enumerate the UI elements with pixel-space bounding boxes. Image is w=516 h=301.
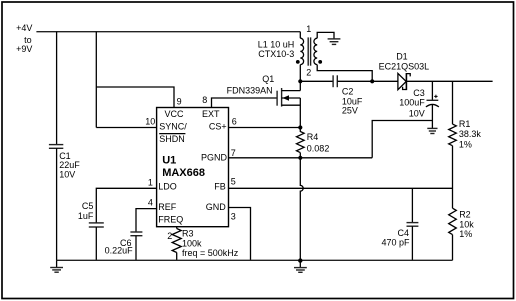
node junction R4 bottom (298, 156, 302, 160)
svg-text:3: 3 (231, 212, 236, 222)
svg-text:C2: C2 (342, 86, 354, 96)
ground (C3) (427, 128, 437, 133)
svg-text:R4: R4 (307, 132, 319, 142)
svg-text:SHDN: SHDN (159, 134, 185, 144)
resistor R1 (449, 119, 482, 149)
resistor R4 (297, 128, 330, 154)
svg-text:10k: 10k (459, 220, 474, 230)
svg-text:100uF: 100uF (399, 98, 425, 108)
svg-text:1%: 1% (459, 229, 472, 239)
ground (center below rail) (294, 260, 307, 272)
svg-text:0.082: 0.082 (307, 144, 330, 154)
svg-text:EXT: EXT (202, 109, 220, 119)
wire bottom ground rail (57, 259, 453, 261)
svg-text:5: 5 (231, 177, 236, 187)
svg-text:38.3k: 38.3k (459, 129, 482, 139)
node junction secondary/D1 (370, 79, 374, 83)
wire pin8 EXT to gate (212, 98, 278, 108)
svg-text:CTX10-3: CTX10-3 (258, 49, 294, 59)
svg-text:freq = 500kHz: freq = 500kHz (182, 248, 239, 258)
transformer L1 primary lead from rail (299, 32, 301, 39)
svg-text:FREQ: FREQ (158, 215, 183, 225)
resistor R3 (172, 227, 239, 261)
capacitor C3 (399, 81, 439, 128)
svg-text:9: 9 (177, 97, 182, 107)
capacitor C4 (381, 188, 418, 260)
svg-text:+4V: +4V (16, 23, 32, 33)
wire pin1 LDO (96, 188, 156, 223)
svg-text:25V: 25V (342, 106, 358, 116)
wire R2 bottom to rail (452, 235, 454, 261)
wire R1 to R2 (452, 146, 454, 209)
wire pin6 CS+ (229, 127, 301, 129)
svg-text:2: 2 (167, 231, 172, 241)
svg-text:6: 6 (232, 117, 237, 127)
wire pin7 PGND (229, 157, 373, 159)
svg-text:C5: C5 (82, 201, 94, 211)
wire pin4 REF (136, 209, 157, 232)
wire R4 ground drop with hop (300, 158, 303, 260)
svg-text:GND: GND (206, 202, 227, 212)
transistor Q1 FDN339AN (227, 74, 301, 127)
svg-text:1uF: 1uF (78, 211, 94, 221)
svg-text:10V: 10V (59, 170, 75, 180)
wire pin10 SYNC (96, 127, 156, 129)
ground (transformer secondary) (328, 39, 341, 45)
svg-text:FDN339AN: FDN339AN (227, 86, 273, 96)
svg-text:SYNC/: SYNC/ (159, 121, 187, 131)
wire C1 branch top (56, 32, 58, 145)
svg-text:+9V: +9V (16, 44, 32, 54)
svg-text:EC21QS03L: EC21QS03L (379, 61, 430, 71)
node VIN label +4V to +9V (16, 23, 32, 54)
svg-text:R3: R3 (182, 228, 194, 238)
svg-text:U1: U1 (162, 155, 176, 167)
svg-text:FB: FB (214, 182, 226, 192)
wire D1 to output (406, 80, 492, 82)
svg-text:R1: R1 (459, 119, 471, 129)
svg-text:VCC: VCC (164, 109, 184, 119)
svg-text:100k: 100k (182, 238, 202, 248)
svg-text:1: 1 (148, 178, 153, 188)
svg-text:D1: D1 (396, 51, 408, 61)
wire C1 bottom (56, 148, 58, 260)
svg-text:LDO: LDO (158, 182, 177, 192)
svg-text:10: 10 (145, 117, 155, 127)
node junction CS+/R4 top (298, 125, 302, 129)
wire top rail VIN (36, 31, 300, 33)
node junction rail center ground (298, 258, 302, 262)
svg-text:7: 7 (231, 148, 236, 158)
svg-text:Q1: Q1 (262, 74, 274, 84)
svg-text:4: 4 (148, 197, 153, 207)
wire pin3 GND drop (229, 208, 251, 261)
svg-text:10V: 10V (409, 108, 425, 118)
wire secondary top to ground (317, 32, 334, 38)
svg-text:470 pF: 470 pF (381, 238, 410, 248)
node junction Q1 drain / primary (298, 79, 302, 83)
phase dot secondary (318, 60, 322, 64)
svg-text:0.22uF: 0.22uF (105, 245, 134, 255)
svg-text:C4: C4 (397, 228, 409, 238)
wire pin9 VCC (96, 87, 174, 108)
resistor R2 (449, 208, 475, 239)
core lines (307, 37, 309, 65)
svg-text:1: 1 (306, 24, 311, 34)
wire R1 branch from output (452, 81, 454, 124)
svg-text:MAX668: MAX668 (162, 167, 205, 179)
wire C2 to D1 (337, 80, 398, 82)
wire node to C2 (300, 80, 333, 82)
svg-text:PGND: PGND (201, 152, 228, 162)
svg-text:8: 8 (202, 95, 207, 105)
svg-text:CS+: CS+ (209, 121, 227, 131)
wire VCC feed vertical (95, 32, 97, 128)
capacitor C5 (78, 201, 104, 260)
svg-text:L1 10 uH: L1 10 uH (258, 40, 295, 50)
secondary winding (314, 38, 317, 64)
svg-text:2: 2 (306, 67, 311, 77)
wire pin5 FB (229, 187, 453, 189)
wire primary bottom to node (299, 65, 301, 82)
ground (left below C1) (50, 260, 63, 272)
svg-text:R2: R2 (459, 209, 471, 219)
wire secondary bottom (317, 65, 372, 82)
transformer L1 CTX10-3 (258, 24, 322, 77)
op-amp U1 MAX668 box (157, 108, 229, 227)
wire PGND riser to C3 ground (372, 121, 432, 158)
capacitor C2 (333, 75, 363, 115)
capacitor C1 (49, 145, 80, 180)
capacitor C6 (105, 232, 143, 260)
phase dot primary (296, 60, 300, 64)
svg-text:REF: REF (158, 202, 177, 212)
svg-text:1%: 1% (459, 139, 472, 149)
diode D1 EC21QS03L (379, 51, 430, 90)
svg-text:C3: C3 (413, 88, 425, 98)
primary winding (300, 38, 303, 64)
